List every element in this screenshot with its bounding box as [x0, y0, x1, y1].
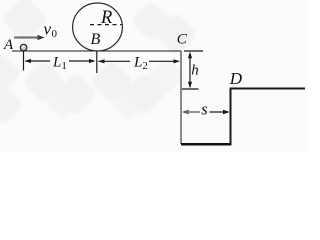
dimension L2	[98, 59, 180, 63]
svg-text:R: R	[100, 8, 112, 28]
hoop circle	[73, 3, 123, 51]
svg-text:A: A	[3, 37, 14, 53]
svg-text:B: B	[91, 31, 101, 48]
top surface AC	[12, 50, 181, 52]
lower floor	[181, 143, 231, 146]
step wall below C	[180, 51, 182, 144]
platform top at D	[230, 88, 305, 90]
tick below B	[96, 52, 98, 74]
svg-text:s: s	[201, 99, 207, 118]
svg-text:h: h	[191, 63, 199, 79]
h dimension top tick	[184, 50, 203, 52]
svg-text:D: D	[229, 69, 243, 88]
velocity arrow v0	[15, 35, 45, 40]
svg-text:v: v	[44, 19, 52, 38]
ball at A	[0, 0, 1, 1]
tick below A	[23, 52, 25, 71]
h dimension arrow	[188, 52, 192, 88]
svg-text:0: 0	[52, 28, 58, 40]
dashed radius	[90, 24, 122, 26]
watermark texture	[0, 0, 1, 1]
dimension L1	[25, 59, 96, 63]
s dimension	[182, 110, 230, 115]
h dimension bottom tick	[182, 88, 199, 90]
right wall up to platform	[230, 89, 232, 145]
svg-text:C: C	[177, 31, 188, 47]
